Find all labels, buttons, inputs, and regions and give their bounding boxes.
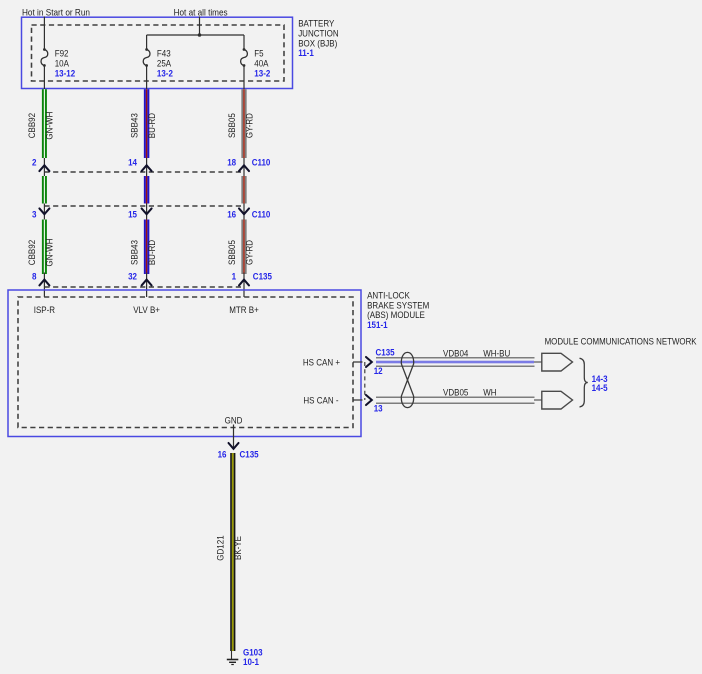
svg-text:10A: 10A [55, 59, 69, 69]
connector pin arrow, pin 14 [142, 165, 152, 171]
wire VDB04 WH-BU [376, 358, 542, 366]
svg-text:2: 2 [32, 158, 37, 168]
svg-text:16: 16 [218, 450, 227, 460]
svg-text:SBB05: SBB05 [227, 240, 237, 265]
svg-text:ISP-R: ISP-R [34, 305, 56, 315]
svg-text:WH: WH [483, 387, 496, 397]
svg-text:MODULE COMMUNICATIONS NETWORK: MODULE COMMUNICATIONS NETWORK [545, 337, 697, 347]
wire BU-RD between C110 rows [144, 176, 146, 204]
svg-text:GN-WH: GN-WH [45, 112, 55, 140]
junction node [198, 33, 202, 37]
off-page connector to network (HS CAN-) [542, 391, 573, 409]
wire SBB05 GY-RD segment 2 [241, 220, 243, 275]
connector pin arrow, pin 2 [39, 165, 49, 171]
svg-text:GY-RD: GY-RD [244, 113, 254, 138]
svg-text:C135: C135 [376, 348, 395, 358]
svg-text:GD121: GD121 [216, 535, 226, 560]
svg-text:15: 15 [128, 209, 137, 219]
connector pin arrow, pin 15 [142, 208, 152, 214]
svg-text:C135: C135 [253, 271, 272, 281]
twisted pair symbol [401, 352, 413, 407]
svg-text:13-2: 13-2 [254, 69, 270, 79]
svg-text:151-1: 151-1 [367, 320, 388, 330]
svg-text:GND: GND [225, 415, 243, 425]
wire stem GY-RD at C110 pin 18 [243, 158, 245, 176]
svg-text:32: 32 [128, 271, 137, 281]
svg-text:SBB43: SBB43 [129, 240, 139, 265]
svg-text:SBB43: SBB43 [129, 113, 139, 138]
svg-text:1: 1 [232, 271, 237, 281]
BJB inner dashed box [32, 25, 285, 81]
connector arrow C135 pin 12 [366, 357, 372, 367]
wire stem GY-RD at C110 pin 16 [243, 204, 245, 220]
svg-text:18: 18 [227, 158, 236, 168]
wire CBB92 GN-WH segment 2 [42, 220, 44, 275]
wire stem GN-WH at C110 pin 2 [43, 158, 45, 176]
connector pin arrow, pin 8 [39, 280, 49, 286]
wire stem into module pin 32 [146, 273, 148, 298]
svg-text:JUNCTION: JUNCTION [298, 28, 338, 38]
wire SBB05 GY-RD segment 1 [241, 89, 243, 158]
wire from Hot in Start or Run to fuse F92 [43, 17, 45, 50]
svg-text:14: 14 [128, 158, 137, 168]
fuse F92 10A [41, 48, 75, 79]
wire GD121 BK-YE [230, 453, 232, 651]
svg-text:12: 12 [374, 366, 383, 376]
wire branch to F5 [243, 35, 245, 49]
svg-text:VLV B+: VLV B+ [133, 305, 160, 315]
HS CAN- stub out of module [353, 399, 363, 401]
ABS module inner dashed box [18, 297, 353, 428]
connector pin arrow, pin 16 [239, 208, 249, 214]
svg-text:25A: 25A [157, 59, 171, 69]
svg-text:8: 8 [32, 271, 37, 281]
svg-text:HS CAN -: HS CAN - [303, 395, 338, 405]
connector pin arrow, pin 16 GND [229, 443, 239, 449]
svg-text:13: 13 [374, 403, 383, 413]
svg-text:BK-YE: BK-YE [233, 536, 243, 560]
svg-text:13-2: 13-2 [157, 69, 173, 79]
wire stem BU-RD at C110 pin 14 [146, 158, 148, 176]
svg-text:HS CAN +: HS CAN + [303, 357, 340, 367]
svg-text:F5: F5 [254, 49, 263, 59]
svg-text:GN-WH: GN-WH [45, 239, 55, 267]
wire F43 to box bottom [146, 66, 148, 90]
BJB outer box [22, 17, 293, 88]
off-page connector to network (HS CAN+) [542, 353, 573, 371]
wire from Hot at all times to junction [199, 17, 201, 36]
ABS module outer box [8, 290, 361, 437]
svg-text:(ABS) MODULE: (ABS) MODULE [367, 310, 425, 320]
connector pin arrow, pin 1 [239, 280, 249, 286]
BJB label [298, 19, 338, 59]
ground G103 [227, 660, 239, 665]
wire stem BU-RD at C110 pin 15 [146, 204, 148, 220]
svg-text:11-1: 11-1 [298, 48, 314, 58]
svg-text:BU-RD: BU-RD [147, 113, 157, 139]
fuse F43 25A [143, 48, 173, 79]
brace [580, 358, 588, 407]
svg-text:CBB92: CBB92 [27, 113, 37, 138]
svg-text:WH-BU: WH-BU [483, 348, 510, 358]
connector C135 dashed line (right) [364, 362, 366, 400]
wire branch to F43 [146, 35, 148, 49]
HS CAN+ stub out of module [353, 361, 363, 363]
wire to ground [231, 651, 233, 660]
svg-text:BOX (BJB): BOX (BJB) [298, 38, 337, 48]
wire stem GN-WH at C110 pin 3 [43, 204, 45, 220]
connector arrow C135 pin 13 [366, 395, 372, 405]
svg-text:Hot in Start or Run: Hot in Start or Run [22, 7, 90, 17]
wire CBB92 GN-WH segment 1 [42, 89, 44, 158]
svg-text:GY-RD: GY-RD [244, 240, 254, 265]
svg-text:40A: 40A [254, 59, 268, 69]
svg-text:13-12: 13-12 [55, 69, 75, 79]
wire junction branch horizontal [147, 34, 244, 36]
svg-text:C110: C110 [252, 209, 271, 219]
connector C110 row 2 dashed line [44, 205, 244, 207]
svg-text:ANTI-LOCK: ANTI-LOCK [367, 290, 410, 300]
svg-text:14-5: 14-5 [592, 383, 608, 393]
svg-text:16: 16 [227, 209, 236, 219]
wire GY-RD between C110 rows [241, 176, 243, 204]
connector pin arrow, pin 18 [239, 165, 249, 171]
wire stem into module pin 1 [243, 273, 245, 298]
svg-text:BU-RD: BU-RD [147, 239, 157, 265]
svg-text:MTR B+: MTR B+ [229, 305, 259, 315]
connector pin arrow, pin 3 [39, 208, 49, 214]
svg-text:Hot at all times: Hot at all times [174, 7, 228, 17]
svg-text:BATTERY: BATTERY [298, 19, 334, 29]
svg-text:F43: F43 [157, 49, 171, 59]
svg-text:VDB04: VDB04 [443, 348, 468, 358]
svg-text:G103: G103 [243, 647, 263, 657]
svg-text:10-1: 10-1 [243, 657, 259, 667]
GND wire stem out of module [233, 425, 235, 450]
wire SBB43 BU-RD segment 1 [144, 89, 146, 158]
svg-text:BRAKE SYSTEM: BRAKE SYSTEM [367, 300, 429, 310]
svg-text:CBB92: CBB92 [27, 240, 37, 265]
fuse F5 40A [241, 48, 271, 79]
wire SBB43 BU-RD segment 2 [144, 220, 146, 275]
wire F5 to box bottom [243, 66, 245, 90]
wire stem into module pin 8 [43, 273, 45, 298]
svg-text:SBB05: SBB05 [227, 113, 237, 138]
svg-text:F92: F92 [55, 49, 69, 59]
svg-text:3: 3 [32, 209, 37, 219]
svg-text:C110: C110 [252, 158, 271, 168]
connector C135 dashed line [44, 286, 244, 288]
connector C110 row 1 dashed line [44, 171, 244, 173]
ABS module label [367, 290, 429, 330]
wire GN-WH between C110 rows [42, 176, 44, 204]
connector pin arrow, pin 32 [142, 280, 152, 286]
wire VDB05 WH [376, 397, 542, 403]
wire F92 to box bottom [43, 66, 45, 90]
svg-text:VDB05: VDB05 [443, 387, 468, 397]
svg-text:C135: C135 [240, 450, 259, 460]
